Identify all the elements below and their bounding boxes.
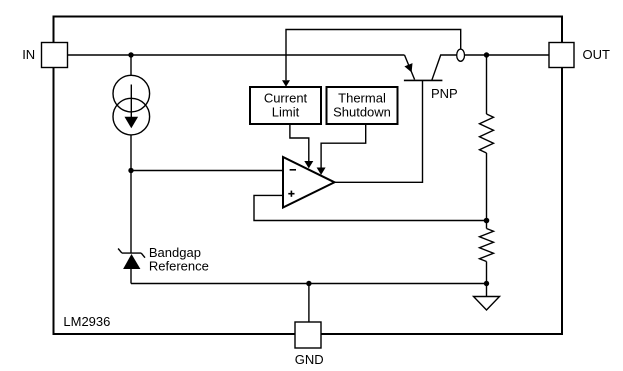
svg-text:Thermal: Thermal [338,90,386,105]
wire current source to minus-node [130,135,132,253]
transistor Q1 PNP base bar [404,79,443,81]
IC boundary LM2936 [54,17,563,335]
wire R2 to ground node [486,262,488,297]
svg-text:Limit: Limit [272,105,300,120]
wire IN rail [68,54,405,56]
node OUT rail junction [484,52,489,57]
wire current-sense bypass to Current Limit [286,30,461,81]
pin GND [295,322,321,348]
pin IN [42,43,68,68]
svg-text:Reference: Reference [149,259,209,274]
node minus input junction [128,168,133,173]
arrowhead Current Limit into op-amp [304,161,313,168]
svg-text:GND: GND [295,352,324,367]
block Current Limit [250,87,321,124]
wire left branch from IN rail to current source [130,55,132,75]
op-amp U1 [283,157,335,208]
wire op-amp output to PNP base [335,80,423,182]
svg-text:LM2936: LM2936 [63,314,110,329]
ground symbol [474,297,500,311]
wire GND pin drop [308,284,310,323]
wire Current Limit to op-amp [290,124,309,162]
op-amp minus sign [290,169,296,171]
resistor R2 (lower divider) [480,229,494,262]
wire internal ground rail [131,283,487,285]
node ground rail junction to GND pin [306,281,311,286]
current source I1 [113,75,150,112]
node junction on IN rail [128,52,133,57]
node divider ground junction [484,281,489,286]
arrowhead Thermal Shutdown into op-amp [317,168,326,175]
current sense loop on collector [457,49,465,61]
wire zener anode to ground rail [130,269,132,284]
svg-text:Current: Current [264,90,308,105]
pin OUT [549,43,574,68]
transistor Q1 PNP emitter [405,55,415,80]
zener diode bandgap reference [122,252,141,254]
wire to op-amp inverting input [131,170,283,172]
wire op-amp non-inverting input to feedback node [254,195,487,220]
wire right branch OUT rail down through divider [486,55,488,114]
resistor R1 (upper divider) [480,114,494,153]
wire between divider resistors [486,153,488,229]
node feedback junction [484,218,490,224]
block Thermal Shutdown [327,87,398,124]
transistor Q1 PNP collector [432,55,549,80]
svg-text:OUT: OUT [583,47,611,62]
svg-text:Shutdown: Shutdown [333,105,391,120]
arrowhead PNP emitter [404,63,412,72]
op-amp plus sign [288,193,294,195]
svg-text:IN: IN [22,47,35,62]
arrowhead into Current Limit block [282,80,290,87]
svg-text:PNP: PNP [431,86,458,101]
wire Thermal Shutdown to op-amp [321,124,366,169]
